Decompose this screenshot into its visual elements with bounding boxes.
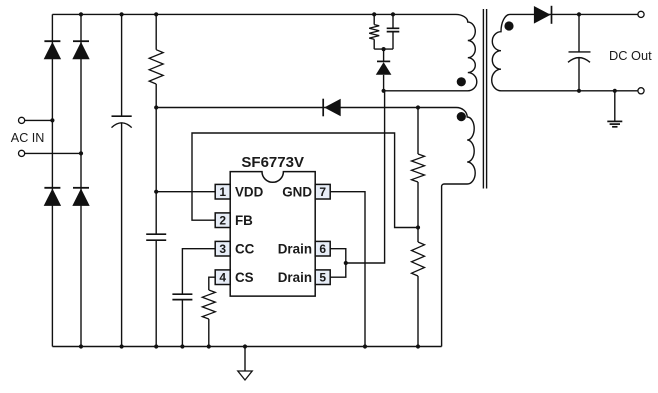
svg-text:VDD: VDD xyxy=(235,184,264,199)
svg-text:CC: CC xyxy=(235,241,255,256)
svg-text:Drain: Drain xyxy=(278,241,312,256)
svg-text:2: 2 xyxy=(219,214,226,228)
svg-text:1: 1 xyxy=(219,185,226,199)
svg-text:AC IN: AC IN xyxy=(11,131,45,145)
svg-text:SF6773V: SF6773V xyxy=(241,154,304,171)
svg-text:4: 4 xyxy=(219,271,226,285)
svg-text:GND: GND xyxy=(282,184,312,199)
svg-text:6: 6 xyxy=(319,242,326,256)
svg-text:CS: CS xyxy=(235,270,254,285)
svg-text:DC Out: DC Out xyxy=(609,48,652,63)
svg-text:7: 7 xyxy=(319,185,326,199)
svg-text:5: 5 xyxy=(319,271,326,285)
svg-text:3: 3 xyxy=(219,242,226,256)
svg-text:FB: FB xyxy=(235,213,253,228)
svg-text:Drain: Drain xyxy=(278,270,312,285)
